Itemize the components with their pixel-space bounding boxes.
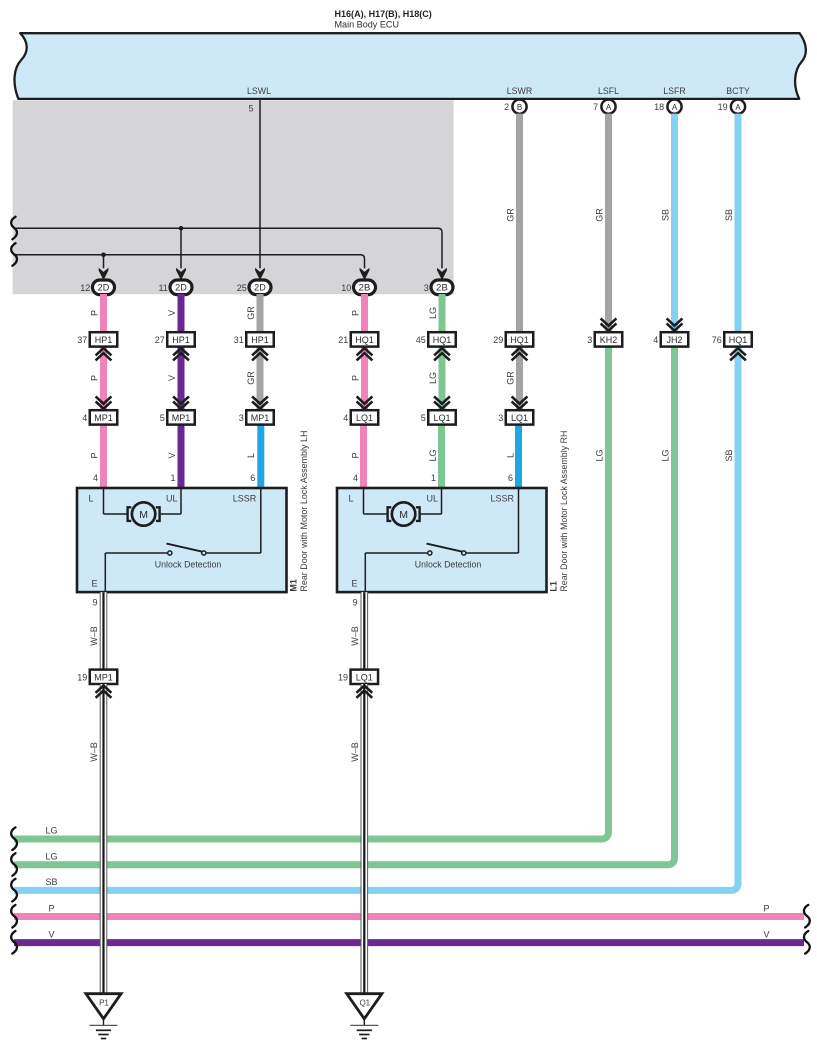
svg-text:SB: SB [724, 209, 734, 221]
svg-text:P: P [90, 310, 100, 316]
svg-text:5: 5 [248, 104, 253, 114]
continuation squiggle upper [11, 217, 17, 240]
svg-text:9: 9 [352, 597, 357, 607]
wire P seg1 col4 [361, 294, 368, 332]
svg-text:E: E [351, 579, 357, 589]
svg-text:25: 25 [237, 283, 247, 293]
svg-text:GR: GR [246, 371, 256, 385]
wire LG to bus1 [14, 347, 609, 839]
connector 3 2B [431, 280, 453, 295]
continuation squiggle P right [804, 905, 810, 928]
svg-text:SB: SB [661, 209, 671, 221]
wire W-B lower [361, 684, 368, 994]
svg-text:A: A [735, 103, 741, 112]
svg-text:W–B: W–B [350, 626, 360, 646]
svg-text:P: P [351, 452, 361, 458]
ground Q1 [347, 994, 382, 1019]
chevron pair marker up [356, 686, 372, 693]
svg-text:LG: LG [428, 307, 438, 319]
svg-text:31: 31 [234, 335, 244, 345]
svg-text:Rear Door with Motor Lock Asse: Rear Door with Motor Lock Assembly RH [559, 431, 569, 592]
svg-text:LQ1: LQ1 [511, 413, 528, 423]
svg-text:HP1: HP1 [95, 335, 113, 345]
wire P seg3 col1 [100, 425, 107, 489]
svg-text:Rear Door with Motor Lock Asse: Rear Door with Motor Lock Assembly LH [299, 431, 309, 592]
svg-text:V: V [167, 452, 177, 458]
chevron pair marker up [173, 348, 189, 355]
motor lock assembly L1 [337, 488, 547, 592]
connector 12 2D [93, 280, 115, 295]
svg-text:3: 3 [239, 413, 244, 423]
connector 3 MP1 [246, 410, 274, 424]
chevron pair marker down [512, 401, 528, 408]
svg-text:3: 3 [587, 335, 592, 345]
svg-text:A: A [672, 103, 678, 112]
svg-text:45: 45 [416, 335, 426, 345]
connector 3 LQ1 [506, 410, 534, 424]
wire SB to bus3 [14, 347, 738, 891]
wire GR seg1 col3 [257, 294, 264, 332]
connector 10 2B [354, 280, 376, 295]
ground P1 [86, 994, 121, 1019]
svg-text:SB: SB [46, 877, 58, 887]
wire drop col2 [180, 228, 182, 268]
chevron pair marker up [252, 348, 268, 355]
wire P seg2 col1 [100, 347, 107, 411]
svg-text:3: 3 [498, 413, 503, 423]
connector 29 HQ1 [506, 332, 534, 346]
continuation squiggle bus [11, 879, 17, 902]
connector 4 MP1 [90, 410, 118, 424]
wire LG seg3 col5 [438, 425, 445, 489]
connector 21 HQ1 [351, 332, 379, 346]
svg-text:LQ1: LQ1 [433, 413, 450, 423]
wire L seg3 col3 [257, 425, 264, 489]
svg-text:10: 10 [341, 283, 351, 293]
bus wire V [14, 939, 804, 946]
continuation squiggle V right [804, 931, 810, 954]
connector 4 JH2 [661, 332, 689, 346]
connector 76 HQ1 [724, 332, 752, 346]
svg-text:12: 12 [80, 283, 90, 293]
svg-text:19: 19 [338, 673, 348, 683]
svg-text:4: 4 [353, 473, 358, 483]
arrow into connector 12 2D [99, 268, 109, 280]
svg-text:E: E [91, 579, 97, 589]
wire LSWL vertical [259, 100, 261, 268]
chevron pair marker up [96, 686, 112, 693]
continuation squiggle bus [11, 931, 17, 954]
svg-text:H16(A), H17(B), H18(C): H16(A), H17(B), H18(C) [335, 9, 432, 20]
svg-text:1: 1 [170, 473, 175, 483]
svg-text:5: 5 [160, 413, 165, 423]
svg-text:LSWL: LSWL [247, 86, 271, 96]
wire P seg3 col4 [360, 425, 367, 489]
svg-text:LSSR: LSSR [490, 494, 514, 504]
svg-text:LQ1: LQ1 [356, 413, 373, 423]
connector 27 HP1 [167, 332, 195, 346]
svg-text:MP1: MP1 [94, 672, 113, 682]
connector 25 2D [249, 280, 271, 295]
svg-text:GR: GR [506, 371, 516, 385]
svg-text:V: V [764, 929, 770, 939]
svg-text:MP1: MP1 [94, 413, 113, 423]
junction node on upper branch [179, 226, 184, 231]
svg-text:M: M [139, 509, 148, 521]
wire LG seg2 col5 [439, 347, 446, 411]
wire SB LSFR [671, 114, 678, 333]
svg-text:HP1: HP1 [172, 335, 190, 345]
wire V seg3 col2 [178, 425, 185, 489]
svg-text:6: 6 [508, 473, 513, 483]
wire SB BCTY [735, 114, 742, 333]
svg-text:JH2: JH2 [666, 335, 682, 345]
svg-text:Unlock Detection: Unlock Detection [155, 560, 222, 570]
svg-text:W–B: W–B [350, 742, 360, 762]
connector 3 KH2 [595, 332, 623, 346]
svg-text:2D: 2D [254, 283, 266, 293]
svg-text:LSFR: LSFR [663, 86, 686, 96]
wire drop col1 [103, 255, 105, 268]
svg-text:A: A [606, 103, 612, 112]
svg-text:SB: SB [724, 449, 734, 461]
svg-text:GR: GR [246, 306, 256, 320]
pin 7 A LSFL [601, 100, 615, 114]
wire W-B upper left [100, 592, 107, 669]
pin 2 B LSWR [512, 100, 526, 114]
connector 37 HP1 [90, 332, 118, 346]
svg-text:LG: LG [46, 851, 58, 861]
svg-text:P: P [90, 375, 100, 381]
svg-text:W–B: W–B [89, 626, 99, 646]
svg-text:GR: GR [595, 208, 605, 222]
svg-text:HQ1: HQ1 [355, 335, 374, 345]
svg-text:HQ1: HQ1 [729, 335, 748, 345]
connector 19 MP1 [90, 670, 118, 684]
svg-text:HQ1: HQ1 [510, 335, 529, 345]
svg-text:L: L [88, 494, 93, 504]
continuation squiggle bus [11, 853, 17, 876]
svg-text:3: 3 [424, 283, 429, 293]
wire GR seg2 col3 [257, 347, 264, 411]
svg-text:P: P [764, 903, 770, 913]
connector 4 LQ1 [351, 410, 379, 424]
connector 19 LQ1 [351, 670, 379, 684]
junction node on lower branch [101, 253, 106, 258]
connector 45 HQ1 [428, 332, 456, 346]
svg-text:2B: 2B [359, 283, 371, 293]
svg-text:21: 21 [338, 335, 348, 345]
wire V seg1 col2 [178, 294, 185, 332]
svg-text:4: 4 [82, 413, 87, 423]
wire branch lower [13, 255, 364, 268]
svg-text:V: V [49, 929, 55, 939]
Main Body ECU block [14, 33, 805, 99]
wire W-B upper right [361, 592, 368, 669]
svg-text:P1: P1 [99, 998, 109, 1007]
connector 5 LQ1 [428, 410, 456, 424]
wire GR LSWR [516, 114, 523, 333]
svg-text:29: 29 [493, 335, 503, 345]
svg-text:LQ1: LQ1 [356, 672, 373, 682]
svg-text:P: P [49, 903, 55, 913]
svg-text:B: B [517, 103, 522, 112]
chevron pair marker up [434, 348, 450, 355]
svg-text:37: 37 [77, 335, 87, 345]
svg-text:UL: UL [426, 494, 438, 504]
chevron pair marker up [96, 348, 112, 355]
svg-text:W–B: W–B [89, 742, 99, 762]
svg-text:4: 4 [653, 335, 658, 345]
svg-text:LG: LG [46, 826, 58, 836]
svg-text:LG: LG [595, 449, 605, 461]
svg-text:L1: L1 [549, 581, 559, 592]
svg-text:2D: 2D [98, 283, 110, 293]
svg-text:2D: 2D [175, 283, 187, 293]
motor lock assembly M1 [77, 488, 287, 592]
svg-text:HP1: HP1 [251, 335, 269, 345]
svg-text:BCTY: BCTY [726, 86, 750, 96]
svg-text:LG: LG [661, 449, 671, 461]
chevron pair marker down [601, 323, 617, 330]
arrow into connector 11 2D [176, 268, 186, 280]
connector 31 HP1 [246, 332, 274, 346]
connector 5 MP1 [167, 410, 195, 424]
svg-text:2B: 2B [436, 283, 448, 293]
svg-text:V: V [167, 310, 177, 316]
svg-text:LSFL: LSFL [598, 86, 619, 96]
chevron pair marker up [730, 348, 746, 355]
pin 18 A LSFR [667, 100, 681, 114]
bus wire P [14, 913, 804, 920]
svg-text:4: 4 [343, 413, 348, 423]
wire GR LSFL [605, 114, 612, 333]
svg-text:6: 6 [250, 473, 255, 483]
svg-text:LG: LG [428, 372, 438, 384]
wire P seg2 col4 [361, 347, 368, 411]
chevron pair marker up [357, 348, 373, 355]
svg-text:P: P [90, 452, 100, 458]
svg-text:L: L [246, 453, 256, 458]
svg-text:V: V [167, 375, 177, 381]
svg-text:LSWR: LSWR [507, 86, 532, 96]
continuation squiggle bus [11, 905, 17, 928]
wire LG to bus2 [14, 347, 675, 865]
svg-text:9: 9 [92, 597, 97, 607]
svg-text:M1: M1 [289, 579, 299, 592]
wire L seg3 col6 [515, 425, 522, 489]
wire W-B lower [100, 684, 107, 994]
chevron pair marker up [512, 348, 528, 355]
svg-text:MP1: MP1 [251, 413, 270, 423]
svg-text:Unlock Detection: Unlock Detection [415, 560, 482, 570]
svg-text:M: M [399, 509, 408, 521]
wire GR seg2 col6 [516, 347, 523, 411]
svg-text:LG: LG [428, 449, 438, 461]
svg-text:L: L [506, 453, 516, 458]
svg-text:11: 11 [158, 283, 167, 293]
svg-text:GR: GR [506, 208, 516, 222]
svg-text:4: 4 [93, 473, 98, 483]
svg-text:LSSR: LSSR [233, 494, 257, 504]
wire LG seg1 col5 [439, 294, 446, 332]
connector 11 2D [170, 280, 192, 295]
arrow into connector 3 2B [437, 268, 447, 280]
chevron pair marker down [434, 401, 450, 408]
svg-text:19: 19 [718, 102, 728, 112]
chevron pair marker down [667, 323, 683, 330]
continuation squiggle lower [11, 243, 17, 266]
svg-text:1: 1 [431, 473, 436, 483]
svg-text:KH2: KH2 [600, 335, 618, 345]
svg-text:7: 7 [593, 102, 598, 112]
svg-text:Q1: Q1 [359, 998, 370, 1007]
svg-text:5: 5 [421, 413, 426, 423]
chevron pair marker down [173, 401, 189, 408]
arrow into connector 25 2D [255, 268, 265, 280]
pin 19 A BCTY [731, 100, 745, 114]
svg-text:L: L [348, 494, 353, 504]
continuation squiggle bus [11, 827, 17, 850]
svg-text:2: 2 [504, 102, 509, 112]
svg-text:MP1: MP1 [172, 413, 191, 423]
svg-text:18: 18 [654, 102, 664, 112]
chevron pair marker down [357, 401, 373, 408]
arrow into connector 10 2B [360, 268, 370, 280]
shielded harness area [13, 100, 454, 294]
wire branch upper [13, 228, 442, 268]
svg-text:27: 27 [155, 335, 165, 345]
chevron pair marker down [96, 401, 112, 408]
svg-text:Main Body ECU: Main Body ECU [335, 20, 400, 31]
svg-text:19: 19 [77, 673, 87, 683]
svg-text:UL: UL [166, 494, 178, 504]
svg-text:P: P [351, 375, 361, 381]
chevron pair marker down [252, 401, 268, 408]
wire V seg2 col2 [178, 347, 185, 411]
svg-text:HQ1: HQ1 [433, 335, 452, 345]
svg-text:76: 76 [712, 335, 722, 345]
wire P seg1 col1 [100, 294, 107, 332]
svg-text:P: P [351, 310, 361, 316]
